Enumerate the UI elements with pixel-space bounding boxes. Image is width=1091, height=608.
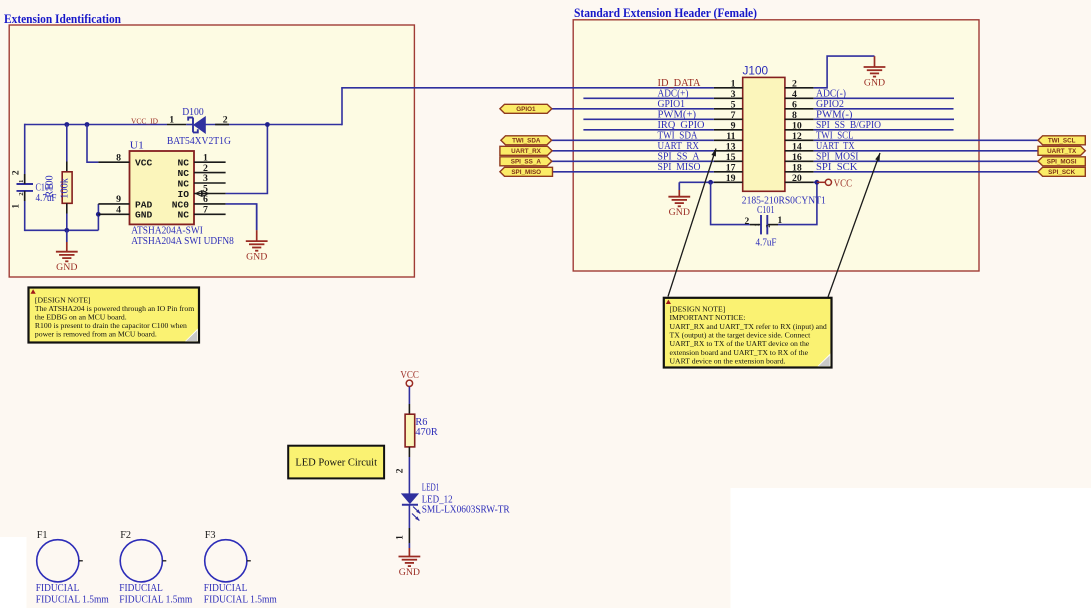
svg-text:FIDUCIAL 1.5mm: FIDUCIAL 1.5mm (36, 595, 110, 606)
svg-text:1: 1 (778, 216, 783, 226)
port UART_RX (500, 146, 552, 155)
svg-text:GND: GND (135, 210, 153, 221)
svg-text:2: 2 (745, 217, 750, 227)
wire PWM(+) pin7 (583, 118, 714, 120)
svg-text:TWI_SCL: TWI_SCL (816, 130, 854, 141)
power port VCC J100 (817, 179, 852, 190)
svg-text:F1: F1 (37, 530, 48, 541)
net label TWI_SCL (816, 130, 854, 141)
svg-text:UART device on the extension b: UART device on the extension board. (670, 357, 786, 366)
wire SPI_SCK pin18 (814, 171, 1038, 173)
net label SPI_MISO (658, 162, 701, 173)
pin name U1 NC r3 (177, 178, 189, 189)
pin number J100 6 (792, 99, 797, 110)
svg-text:4.7uF: 4.7uF (756, 238, 777, 249)
led LED1 emission arrows (412, 507, 420, 521)
title Extension Identification (4, 12, 121, 26)
svg-text:GPIO1: GPIO1 (658, 99, 686, 110)
svg-text:13: 13 (726, 141, 736, 152)
pin D100 2 (215, 124, 229, 126)
svg-text:FIDUCIAL: FIDUCIAL (36, 583, 80, 594)
svg-text:NC: NC (177, 168, 189, 179)
pin number J100 8 (792, 110, 797, 121)
label LED_12 (422, 494, 453, 505)
net label VCC_ID (131, 116, 159, 125)
pin J100-16 (785, 160, 814, 162)
pin number J100 19 (726, 173, 736, 184)
svg-text:FIDUCIAL 1.5mm: FIDUCIAL 1.5mm (204, 595, 278, 606)
fiducial F3 label FIDUCIAL (204, 583, 248, 594)
svg-text:ADC(+): ADC(+) (658, 88, 689, 99)
wire SPI_SS_A pin15 (552, 160, 714, 162)
pin number C100 1 (11, 204, 21, 209)
port UART_TX (1038, 146, 1085, 155)
ground GND left box (56, 230, 78, 273)
wire IO pin to VCC_ID net (226, 125, 268, 194)
svg-text:GND: GND (864, 77, 885, 88)
pin name U1 IO r4 (177, 189, 189, 200)
junction node pin19/C101 (708, 180, 713, 185)
pin number R6 2 (396, 468, 406, 473)
svg-text:ATSHA204A SWI UDFN8: ATSHA204A SWI UDFN8 (131, 235, 234, 247)
svg-text:IO: IO (177, 189, 189, 200)
junction node ground bus (64, 228, 69, 233)
net label SPI_SS_B/GPIO (816, 120, 881, 131)
svg-text:18: 18 (792, 162, 802, 173)
wire pin19 to ground (679, 181, 714, 183)
port TWI_SDA (501, 136, 552, 145)
design note 1 (29, 288, 200, 343)
wire SPI_SS_B/GPIO pin10 (814, 129, 954, 131)
white margin bottom-right (731, 488, 1091, 608)
pin number J100 4 (792, 89, 797, 100)
svg-text:U1: U1 (130, 139, 144, 151)
svg-text:3: 3 (203, 173, 208, 184)
label R100 value 100k rotated (59, 177, 70, 198)
ground GND top right (864, 56, 886, 88)
designator R6 (415, 417, 427, 428)
wire VCC_ID horizontal (25, 124, 167, 126)
pin name U1 NC r2 (177, 168, 189, 179)
label 2185-210RS0CYNT1 (742, 194, 826, 206)
pin U1 IO direction marker (196, 191, 209, 196)
svg-text:SPI_SCK: SPI_SCK (816, 162, 858, 173)
wire ID_DATA vertical riser (341, 88, 343, 126)
svg-text:4: 4 (116, 205, 121, 216)
pin U1-3 (194, 182, 226, 184)
port SPI_MOSI (1038, 157, 1085, 166)
pin J100-18 (785, 171, 814, 173)
wire GPIO1 pin5 (552, 108, 714, 110)
pin J100-15 (714, 160, 743, 162)
capacitor C100 (17, 174, 34, 201)
pin number D100 2 (223, 115, 228, 126)
pin number J100 10 (792, 120, 802, 131)
sheet box Standard Extension Header (573, 20, 979, 271)
fiducial F1 label FIDUCIAL (36, 583, 80, 594)
pin number J100 13 (726, 141, 736, 152)
title Standard Extension Header (Female) (574, 6, 757, 20)
pin U1-2 (194, 172, 226, 174)
fiducial F2 designator (120, 530, 131, 541)
svg-text:4: 4 (792, 89, 797, 100)
svg-text:GPIO1: GPIO1 (516, 106, 536, 113)
junction node pin4/pin9 (96, 212, 101, 217)
pin J100-10 (785, 129, 814, 131)
svg-text:19: 19 (726, 173, 736, 184)
svg-text:F2: F2 (120, 530, 131, 541)
wire IRQ_GPIO pin9 (583, 129, 714, 131)
pin number J100 20 (792, 173, 802, 184)
svg-text:PAD: PAD (135, 199, 153, 210)
svg-text:2: 2 (11, 170, 21, 175)
pin J100-1 (714, 87, 743, 89)
wire VCC to R6 (408, 387, 410, 415)
svg-text:1: 1 (753, 223, 760, 226)
svg-text:SPI_SS_B/GPIO: SPI_SS_B/GPIO (816, 120, 881, 131)
wire NC0 pin to ground (226, 204, 257, 230)
pin number C101 2 (745, 217, 750, 227)
fiducial F2 label FIDUCIAL (119, 583, 163, 594)
port SPI_SCK (1038, 167, 1085, 176)
pin number J100 18 (792, 162, 802, 173)
pin J100-3 (714, 97, 743, 99)
svg-text:UART_TX: UART_TX (816, 141, 855, 152)
svg-text:FIDUCIAL 1.5mm: FIDUCIAL 1.5mm (119, 595, 193, 606)
wire ADC(+) pin3 (583, 97, 714, 99)
pin J100-14 (785, 150, 814, 152)
callout arrow to UART_TX wire (828, 153, 880, 297)
pin number LED1 1 (396, 535, 406, 540)
ic U1 body (130, 151, 195, 224)
svg-text:2: 2 (18, 192, 25, 195)
net label SPI_SS_A (658, 151, 701, 162)
svg-text:UART_RX: UART_RX (511, 148, 542, 155)
pin J100-13 (714, 150, 743, 152)
pin J100-17 (714, 171, 743, 173)
svg-text:GPIO2: GPIO2 (816, 99, 844, 110)
svg-text:10: 10 (792, 120, 802, 131)
pin U1-9 PAD (98, 203, 129, 205)
pin name U1 NC0 r5 (172, 199, 190, 210)
pin name U1 PAD (135, 199, 153, 210)
textbox LED Power Circuit (288, 446, 384, 479)
pin number C101 1 (778, 216, 783, 226)
wire PAD/GND riser (97, 204, 99, 230)
pin name U1 GND (135, 210, 153, 221)
svg-text:SPI_MOSI: SPI_MOSI (816, 151, 859, 162)
wire ADC(-) pin4 (814, 97, 954, 99)
pin number J100 15 (726, 152, 736, 163)
pin U1-4 GND (98, 213, 129, 215)
wire pin20 to VCC (814, 181, 817, 183)
svg-text:ADC(-): ADC(-) (816, 88, 846, 99)
wire bottom ground bus (25, 229, 99, 231)
pin designator C100 1 small (18, 180, 25, 183)
svg-text:F3: F3 (205, 530, 216, 541)
pin number J100 11 (726, 131, 735, 142)
svg-text:VCC_ID: VCC_ID (131, 116, 159, 125)
sheet box Extension Identification (9, 25, 414, 277)
wire U1 VCC pin 8 connection (87, 125, 98, 163)
svg-text:PWM(-): PWM(-) (816, 109, 853, 120)
svg-text:5: 5 (731, 99, 736, 110)
junction node pin20/VCC (815, 180, 820, 185)
pin number U1 3 (203, 173, 208, 184)
design note 2 (664, 298, 832, 368)
pin number U1 8 (116, 152, 121, 163)
wire C101 left branch (711, 182, 750, 224)
svg-text:7: 7 (203, 205, 208, 216)
pin D100 1 (167, 124, 186, 126)
svg-text:SPI_SS_A: SPI_SS_A (658, 151, 701, 162)
svg-text:FIDUCIAL: FIDUCIAL (204, 583, 248, 594)
wire TWI_SCL pin12 (814, 139, 1038, 141)
wire ID_DATA long run to J100 pin 1 (341, 87, 714, 89)
svg-text:IMPORTANT NOTICE:: IMPORTANT NOTICE: (670, 313, 746, 322)
pin number U1 4 (116, 205, 121, 216)
svg-text:VCC: VCC (135, 158, 153, 169)
wire LED1 to GND (408, 505, 410, 543)
fiducial F1 label FIDUCIAL 1.5mm (36, 595, 110, 606)
pin name U1 NC r1 (177, 158, 189, 169)
svg-text:J100: J100 (743, 64, 769, 78)
svg-text:GND: GND (669, 207, 690, 218)
pin U1-8 VCC (98, 161, 129, 163)
svg-text:9: 9 (731, 120, 736, 131)
pin number U1 1 (203, 152, 208, 163)
fiducial F3 designator (205, 530, 216, 541)
svg-text:GND: GND (246, 252, 267, 263)
label C101 (757, 205, 775, 216)
svg-text:NC: NC (177, 158, 189, 169)
pin number J100 7 (731, 110, 736, 121)
svg-text:3: 3 (731, 89, 736, 100)
svg-text:BAT54XV2T1G: BAT54XV2T1G (167, 135, 231, 147)
svg-text:1: 1 (396, 535, 406, 540)
designator D100 (182, 106, 204, 118)
fiducial F1 circle (37, 540, 83, 582)
pin number J100 3 (731, 89, 736, 100)
fiducial F3 circle (205, 540, 251, 582)
svg-text:2: 2 (203, 163, 208, 174)
fiducial F3 label FIDUCIAL 1.5mm (204, 595, 278, 606)
pin number U1 5 (203, 184, 208, 195)
svg-text:17: 17 (726, 162, 736, 173)
net label UART_TX (816, 141, 855, 152)
pin J100-8 (785, 118, 814, 120)
junction node VCC_ID / U1 VCC (85, 122, 90, 127)
power port VCC LED (400, 370, 419, 386)
svg-text:20: 20 (792, 173, 802, 184)
wire diode to junction (205, 124, 267, 126)
svg-text:SPI_MISO: SPI_MISO (658, 162, 701, 173)
svg-text:8: 8 (792, 110, 797, 121)
svg-text:1: 1 (169, 115, 174, 126)
fiducial F1 designator (37, 530, 48, 541)
junction node IO/VCC_ID (265, 122, 270, 127)
pin number C100 2 (11, 170, 21, 175)
pin U1-1 (194, 161, 226, 163)
wire R6 to LED1 (408, 447, 410, 494)
svg-text:2185-210RS0CYNT1: 2185-210RS0CYNT1 (742, 194, 826, 206)
label R100 rotated (45, 175, 56, 197)
net label SPI_MOSI (816, 151, 859, 162)
designator U1 (130, 139, 144, 151)
svg-text:UART_RX: UART_RX (658, 141, 700, 152)
label SML-LX0603SRW-TR (422, 505, 510, 516)
designator LED1 (422, 483, 440, 494)
wire GPIO2 pin6 (814, 108, 954, 110)
svg-text:1: 1 (731, 78, 736, 89)
svg-text:LED1: LED1 (422, 483, 440, 494)
pin J100-7 (714, 118, 743, 120)
label ATSHA204A SWI UDFN8 (131, 235, 234, 247)
svg-text:9: 9 (116, 194, 121, 205)
svg-text:14: 14 (792, 141, 802, 152)
pin designator C101 2 small (765, 224, 772, 227)
pin number J100 12 (792, 131, 802, 142)
svg-text:D100: D100 (182, 106, 204, 118)
net label IRQ_GPIO (658, 120, 705, 131)
pin number J100 16 (792, 152, 802, 163)
svg-text:FIDUCIAL: FIDUCIAL (119, 583, 163, 594)
pin J100-5 (714, 108, 743, 110)
svg-text:2: 2 (765, 224, 772, 227)
net label TWI_SDA (658, 130, 699, 141)
svg-text:[DESIGN NOTE]: [DESIGN NOTE] (670, 304, 726, 313)
port TWI_SCL (1038, 136, 1085, 145)
wire SPI_MOSI pin16 (814, 160, 1038, 162)
svg-text:ID_DATA: ID_DATA (658, 78, 702, 89)
label C100 (36, 183, 54, 194)
svg-text:SML-LX0603SRW-TR: SML-LX0603SRW-TR (422, 505, 510, 516)
svg-text:TWI_SCL: TWI_SCL (1048, 138, 1076, 145)
pin number D100 1 (169, 115, 174, 126)
wire PWM(-) pin8 (814, 118, 954, 120)
svg-text:VCC: VCC (400, 370, 419, 381)
svg-text:1: 1 (203, 152, 208, 163)
svg-text:16: 16 (792, 152, 802, 163)
pin J100-2 (785, 87, 814, 89)
pin name U1 NC r6 (177, 210, 189, 221)
svg-text:NC: NC (177, 178, 189, 189)
svg-text:1: 1 (18, 180, 25, 183)
wire diode gap left (186, 124, 193, 126)
fiducial F2 label FIDUCIAL 1.5mm (119, 595, 193, 606)
fiducial F2 circle (120, 540, 166, 582)
net label ID_DATA (658, 78, 702, 89)
designator J100 (743, 64, 769, 78)
label C100 value 4.7uF (36, 193, 57, 204)
net label GPIO2 (816, 99, 844, 110)
svg-text:100k: 100k (59, 177, 70, 198)
resistor R100 (62, 172, 72, 204)
svg-text:TWI_SDA: TWI_SDA (658, 130, 699, 141)
wire SPI_MISO pin17 (553, 171, 714, 173)
svg-text:TWI_SDA: TWI_SDA (512, 138, 541, 145)
pin U1-5 (194, 193, 226, 195)
svg-text:VCC: VCC (834, 179, 853, 190)
label BAT54XV2T1G (167, 135, 231, 147)
wire C101 right branch (778, 182, 817, 224)
pin name U1 VCC (135, 158, 153, 169)
pin J100-11 (714, 139, 743, 141)
label C101 value 4.7uF (756, 238, 777, 249)
pin J100-20 (785, 181, 814, 183)
junction node VCC_ID / R100 (64, 122, 69, 127)
capacitor C101 (750, 215, 778, 234)
label ATSHA204A-SWI (131, 224, 203, 236)
pin J100-6 (785, 108, 814, 110)
wire UART_RX pin13 (552, 150, 714, 152)
pin number U1 6 (203, 194, 208, 205)
svg-text:C101: C101 (757, 205, 775, 216)
pin J100-19 (714, 181, 743, 183)
resistor R6 (405, 414, 415, 447)
svg-text:2: 2 (396, 468, 406, 473)
svg-text:SPI_MOSI: SPI_MOSI (1047, 159, 1077, 166)
svg-text:2: 2 (223, 115, 228, 126)
pin U1-6 (194, 203, 226, 205)
svg-text:SPI_SS_A: SPI_SS_A (511, 159, 542, 166)
svg-text:470R: 470R (415, 427, 437, 438)
svg-text:GND: GND (399, 567, 420, 578)
led LED1 symbol (402, 494, 418, 505)
pin number U1 9 (116, 194, 121, 205)
svg-text:PWM(+): PWM(+) (658, 109, 697, 120)
diode D100 symbol (188, 117, 205, 133)
pin number J100 2 (792, 78, 797, 89)
svg-text:6: 6 (792, 99, 797, 110)
wire R100 top (66, 125, 68, 172)
svg-text:NC0: NC0 (172, 199, 190, 210)
svg-text:extension board and UART_TX to: extension board and UART_TX to RX of the (670, 348, 809, 357)
wire R100 bottom (66, 203, 68, 231)
pin designator C101 1 small (753, 223, 760, 226)
svg-text:SPI_SCK: SPI_SCK (1048, 169, 1075, 176)
svg-text:Standard Extension Header (Fem: Standard Extension Header (Female) (574, 6, 757, 20)
pin J100-4 (785, 97, 814, 99)
wire junction to corner (267, 124, 342, 126)
svg-text:12: 12 (792, 131, 802, 142)
ground GND bottom left of J100 (668, 182, 690, 218)
callout arrow to UART_RX pin (668, 149, 716, 297)
svg-text:SPI_MISO: SPI_MISO (511, 169, 541, 176)
svg-text:8: 8 (116, 152, 121, 163)
svg-text:IRQ_GPIO: IRQ_GPIO (658, 120, 705, 131)
port SPI_MISO (500, 167, 553, 176)
wire TWI_SDA pin11 (552, 139, 714, 141)
wire left vertical top (24, 124, 26, 184)
svg-text:UART_TX: UART_TX (1047, 148, 1077, 155)
wire left vertical bottom (24, 191, 26, 231)
svg-text:R100: R100 (45, 175, 56, 197)
net label ADC(-) (816, 88, 846, 99)
pin J100-12 (785, 139, 814, 141)
svg-text:power is removed from an MCU b: power is removed from an MCU board. (35, 329, 157, 338)
net label SPI_SCK (816, 162, 858, 173)
svg-text:GND: GND (56, 262, 77, 273)
svg-text:2: 2 (792, 78, 797, 89)
wire UART_TX pin14 (814, 150, 1038, 152)
svg-text:11: 11 (726, 131, 735, 142)
port GPIO1 (500, 104, 552, 113)
svg-text:1: 1 (11, 204, 21, 209)
svg-text:7: 7 (731, 110, 736, 121)
pin number J100 14 (792, 141, 802, 152)
pin number J100 5 (731, 99, 736, 110)
